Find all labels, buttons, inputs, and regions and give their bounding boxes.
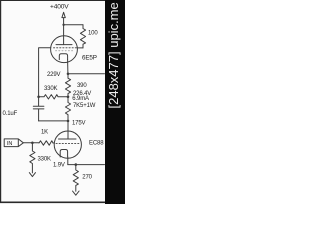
svg-text:175V: 175V <box>72 121 86 127</box>
svg-text:0.1uF: 0.1uF <box>3 111 18 117</box>
wire plate lead V1 <box>63 25 65 45</box>
junction dot grid node <box>37 96 40 99</box>
wire V1 grid to left <box>39 48 51 97</box>
capacitor C1 0.1uF plates <box>33 97 44 121</box>
V1 cathode <box>59 54 67 60</box>
wire V2 plate lead <box>67 121 69 139</box>
svg-text:1.9V: 1.9V <box>53 163 65 169</box>
tube V1 6E5P envelope <box>51 36 78 63</box>
svg-text:1K: 1K <box>41 130 48 136</box>
svg-text:229V: 229V <box>47 72 61 78</box>
ground arrow under R6 <box>29 173 35 177</box>
wire V2 grid to 1K <box>53 142 54 144</box>
wire g2 to R1 <box>77 47 83 49</box>
V2 plate <box>59 138 77 140</box>
wire top rail <box>64 24 83 26</box>
junction dot V2 cathode/270 <box>75 163 78 166</box>
V1 grid g2 dashed <box>56 50 74 52</box>
resistor R1 100 <box>80 25 85 48</box>
resistor R7 270 <box>73 165 78 192</box>
V1 plate <box>56 44 72 46</box>
tube V2 EC88 envelope <box>54 131 81 158</box>
wire input node to 1K <box>23 142 39 144</box>
junction dot input <box>31 142 34 145</box>
svg-text:7K5+1W: 7K5+1W <box>73 103 96 109</box>
svg-text:6E5P: 6E5P <box>82 55 97 62</box>
wire cathode node right (output) <box>68 73 105 75</box>
svg-text:100: 100 <box>88 31 98 37</box>
resistor R6 330K vertical <box>30 143 35 173</box>
svg-text:390: 390 <box>77 83 87 89</box>
resistor R4 7K5 <box>65 97 70 121</box>
wire C1 to V2 plate node <box>39 120 68 122</box>
svg-text:+400V: +400V <box>50 4 69 11</box>
svg-text:330K: 330K <box>44 86 58 92</box>
junction dot 175V node <box>67 120 70 123</box>
resistor R2 390 <box>65 74 70 97</box>
V2 grid dashed <box>56 142 79 144</box>
resistor R3 330K horizontal <box>39 95 68 99</box>
svg-text:330K: 330K <box>38 157 52 163</box>
watermark strip <box>105 0 125 204</box>
junction dot top rail <box>62 24 64 26</box>
wire V2 cathode down <box>67 157 69 165</box>
svg-text:6.9mA: 6.9mA <box>72 96 89 102</box>
connector IN box <box>4 139 23 147</box>
wire V1 cathode down <box>67 60 69 74</box>
wire V2 cathode node right (output) <box>68 164 105 166</box>
junction dot V1 cathode <box>67 73 70 76</box>
power rail +400V arrow <box>62 12 65 24</box>
V2 cathode <box>60 150 67 158</box>
ground arrow under R7 <box>73 191 80 195</box>
resistor R5 1K <box>39 141 53 145</box>
svg-text:EC88: EC88 <box>89 140 104 146</box>
junction dot 390/7K5 <box>67 96 70 99</box>
svg-text:IN: IN <box>7 141 12 147</box>
svg-text:270: 270 <box>82 174 92 180</box>
svg-text:[248x477] upic.me: [248x477] upic.me <box>106 2 121 108</box>
V1 grid g1 dashed <box>54 47 77 49</box>
frame borders <box>0 0 1 203</box>
